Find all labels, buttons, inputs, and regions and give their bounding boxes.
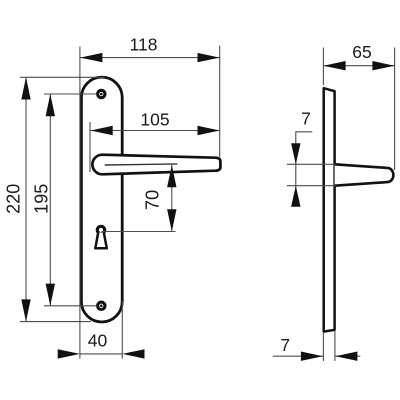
wire: extension line right of 40 dim: [121, 301, 123, 359]
wire: dimension line 40: [80, 353, 122, 355]
arrow top of 220: [21, 77, 30, 99]
arrow right of 118: [198, 53, 220, 62]
screw hole bottom: [98, 302, 105, 309]
arrow left of 65: [323, 61, 345, 70]
arrow below handle bottom line (pointing up): [291, 186, 300, 207]
handle side profile: [335, 164, 394, 185]
wire: bottom extension line of 220 dim (y=321.5): [20, 321, 91, 323]
wire: extension line left of 40 dim: [79, 301, 81, 359]
arrow right of bottom 7 (pointing left): [335, 352, 357, 361]
wire: extension line right of 65 dim (handle tip side): [394, 48, 396, 171]
svg-text:40: 40: [88, 331, 108, 351]
wire: dimension line 65: [323, 65, 394, 67]
wire: extension line right of 118/105 dims (handle tip): [219, 46, 221, 157]
wire: top extension line of 220 dim (y=77): [20, 76, 105, 78]
svg-text:220: 220: [3, 184, 23, 214]
wire: dimension line 70: [171, 165, 173, 232]
arrow right of 40 (outside, pointing left): [122, 349, 144, 358]
arrow top of 70: [167, 165, 176, 187]
plate side profile: [324, 88, 335, 331]
svg-text:105: 105: [140, 110, 169, 130]
arrow left of 105: [91, 126, 113, 135]
wire: extension line right of bottom 7 dim: [334, 331, 336, 361]
wire: extension line handle top (left 7 dim): [287, 163, 336, 165]
arrow left of 118: [80, 53, 102, 62]
arrow right of 105: [198, 126, 220, 135]
wire: extension line left of 118 dim (plate top-left, continues to 40 dim): [79, 47, 81, 302]
wire: left tail of bottom 7 dim: [273, 355, 323, 357]
arrow bottom of 70: [167, 209, 176, 231]
arrow bottom of 195: [46, 284, 55, 306]
wire: right tail of bottom 7 dim: [335, 355, 360, 357]
arrow left of 40 (outside, pointing right): [58, 349, 80, 358]
wire: extension line left of 105 dim (handle left end): [89, 122, 91, 172]
wire: extension line from keyhole center (70 dim bottom): [102, 231, 176, 233]
screw hole top: [98, 90, 105, 97]
arrow above handle top line (pointing down): [291, 143, 300, 164]
wire: top extension line of 195 dim (top screw hole): [44, 93, 96, 95]
svg-text:118: 118: [130, 35, 158, 55]
wire: dimension line 195: [49, 94, 51, 306]
wire: leader bracket of left 7 dim: [296, 132, 313, 206]
wire: extension line handle bottom (left 7 dim): [287, 185, 336, 187]
wire: bottom extension line of 195 dim (bottom screw hole): [44, 305, 96, 307]
wire: extension line left of bottom 7 dim: [322, 333, 324, 361]
handle lever (front view): [92, 155, 220, 175]
keyhole: [97, 226, 104, 233]
wire: dimension line 105: [91, 130, 220, 132]
svg-text:70: 70: [142, 190, 163, 211]
svg-text:195: 195: [32, 184, 52, 214]
arrow bottom of 220: [21, 299, 30, 321]
wire: handle inner centerline: [105, 164, 178, 165]
svg-text:7: 7: [280, 335, 290, 355]
arrow top of 195: [46, 94, 55, 116]
wire: extension line left of 65 dim: [322, 48, 324, 86]
svg-text:7: 7: [301, 109, 311, 129]
arrow right of 65: [372, 61, 394, 70]
svg-text:65: 65: [352, 42, 371, 62]
wire: dimension line 220: [25, 77, 27, 321]
arrow left of bottom 7 (pointing right): [301, 352, 323, 361]
plate backplate (front view, stadium outline): [81, 77, 122, 322]
wire: dimension line 118: [80, 57, 220, 59]
